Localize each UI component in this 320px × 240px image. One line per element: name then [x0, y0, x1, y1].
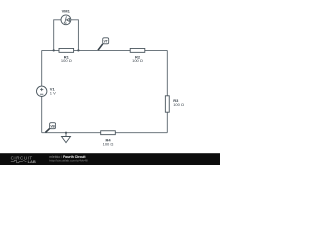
watermark banner [0, 153, 220, 165]
banner title text [49, 155, 88, 163]
voltage source V1 [37, 86, 57, 96]
svg-text:VM1: VM1 [62, 9, 71, 14]
svg-text:1 V: 1 V [50, 90, 56, 95]
svg-text:VT: VT [104, 39, 108, 43]
node junction dot left of R1 [53, 49, 55, 51]
svg-text:100 Ω: 100 Ω [61, 58, 72, 63]
CircuitLab logo [11, 155, 36, 164]
svg-text:http://circuitlab.com/c/4vb48: http://circuitlab.com/c/4vb48 [49, 159, 88, 163]
svg-text:VB: VB [50, 124, 55, 128]
wire top net from node A to node B [42, 49, 168, 51]
wire left branch through V1 [41, 50, 43, 132]
resistor R2 [130, 48, 145, 63]
node flag VB [45, 123, 55, 133]
wire bottom net [42, 132, 168, 134]
node junction dot at ground tap [65, 132, 67, 134]
voltmeter VM1 [61, 9, 71, 25]
ground [62, 133, 71, 143]
wire VM1 left lead [54, 20, 61, 51]
wire right branch through R3 [166, 50, 168, 132]
resistor R1 [59, 48, 74, 63]
resistor R3 [165, 96, 184, 112]
resistor R4 [101, 131, 116, 147]
svg-text:100 Ω: 100 Ω [132, 58, 143, 63]
node junction dot right of R1 [77, 49, 79, 51]
wire VM1 right lead [71, 20, 79, 51]
svg-text:100 Ω: 100 Ω [103, 142, 114, 147]
node flag VT [98, 38, 109, 50]
svg-text:100 Ω: 100 Ω [173, 102, 184, 107]
svg-text:LAB: LAB [28, 159, 36, 164]
